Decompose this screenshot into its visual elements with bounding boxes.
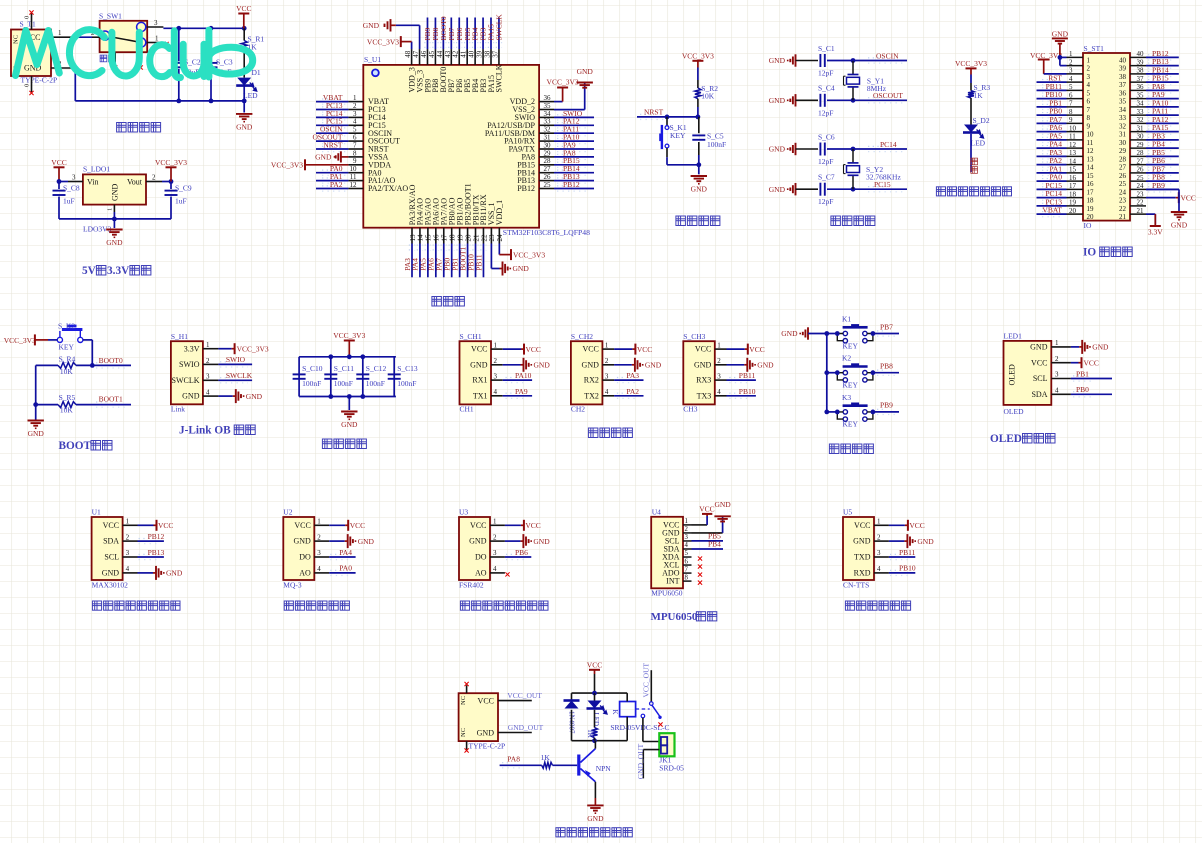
svg-text:K3: K3 xyxy=(842,393,851,402)
wire key to PB9 xyxy=(873,411,899,413)
svg-text:PB9: PB9 xyxy=(880,401,893,410)
wire net PA1 xyxy=(1037,172,1067,174)
pin 33 PA12/USB/DP xyxy=(487,118,554,130)
svg-text:GND: GND xyxy=(917,537,934,546)
svg-text:D1: D1 xyxy=(252,68,261,77)
lead GND to S_C1 xyxy=(796,60,819,62)
svg-text:37: 37 xyxy=(1137,75,1145,83)
pin 44 BOOT0 xyxy=(436,49,448,92)
svg-text:24: 24 xyxy=(1137,182,1145,190)
wire C3 top lead xyxy=(210,28,212,61)
wire net PA9 xyxy=(1146,98,1179,100)
wire C3 bottom lead xyxy=(210,69,212,101)
power flag VCC_3V3 xyxy=(955,59,987,75)
contact circle xyxy=(650,702,654,706)
junction key right xyxy=(871,370,876,375)
svg-text:PB12: PB12 xyxy=(563,180,580,189)
pin 15 PA5/AO xyxy=(424,198,433,244)
pin 21 of ST1 xyxy=(1119,207,1146,221)
svg-text:GND: GND xyxy=(691,185,708,194)
svg-text:U4: U4 xyxy=(652,507,661,516)
pin 13 PA3/RX/AO xyxy=(408,184,417,243)
svg-text:9: 9 xyxy=(353,157,357,165)
pin 4 SDA of OLED xyxy=(1031,387,1070,399)
ground xyxy=(345,534,375,548)
pin 16 PA6/AO xyxy=(432,198,441,244)
section key circuit xyxy=(781,315,899,454)
svg-text:GND: GND xyxy=(769,96,786,105)
wire R2 to node xyxy=(697,107,699,117)
chip orientation mark xyxy=(372,69,379,76)
wire VCC xyxy=(614,348,632,350)
pin 1 VCC of U3 xyxy=(470,518,505,530)
wire net PB3 xyxy=(1146,139,1179,141)
wire net PB0 xyxy=(451,244,453,278)
section IO expansion header xyxy=(1030,30,1196,259)
svg-text:16: 16 xyxy=(433,234,441,242)
ground xyxy=(904,534,934,548)
svg-text:VCC: VCC xyxy=(695,345,711,354)
wire net PB12 xyxy=(554,188,594,190)
pin 18 of ST1 xyxy=(1067,190,1095,204)
lead to R2 xyxy=(697,80,699,88)
svg-text:8: 8 xyxy=(685,574,689,581)
pin 10 of ST1 xyxy=(1067,124,1095,138)
wire 3V3 to pin3 xyxy=(1044,73,1067,75)
pin 27 of ST1 xyxy=(1119,157,1146,171)
pin 31 of ST1 xyxy=(1119,124,1146,138)
svg-text:PC14: PC14 xyxy=(880,140,897,149)
pin 5 XDA of U4 xyxy=(662,550,691,561)
regulator S_LDO1 xyxy=(83,174,146,204)
wire key down xyxy=(666,157,668,165)
svg-text:GND: GND xyxy=(477,728,495,737)
resistor S_R5 xyxy=(58,402,76,408)
svg-text:GND: GND xyxy=(769,56,786,65)
wire net PA3 xyxy=(614,379,643,381)
svg-text:VCC_3V3: VCC_3V3 xyxy=(155,158,187,167)
pin 2 SDA of U1 xyxy=(103,533,137,545)
wire R4 left xyxy=(36,364,58,366)
wire net PA11 xyxy=(1146,114,1179,116)
wire GND to pin1 xyxy=(1060,56,1067,58)
svg-text:S_C5: S_C5 xyxy=(707,132,724,141)
wire net PA6 xyxy=(435,244,437,278)
svg-text:26: 26 xyxy=(1119,172,1127,180)
svg-text:27: 27 xyxy=(544,165,552,173)
svg-text:LED: LED xyxy=(243,91,258,100)
wire net PB5 xyxy=(466,18,468,50)
wire net PB11 xyxy=(889,556,915,558)
ground for S_C4 xyxy=(769,94,796,106)
svg-text:GND: GND xyxy=(106,238,123,247)
wire net PB3 xyxy=(482,18,484,50)
svg-text:SCL: SCL xyxy=(104,553,119,562)
svg-text:25: 25 xyxy=(544,181,552,189)
svg-text:AO: AO xyxy=(299,569,311,578)
caption 薄膜压力检测模块 xyxy=(460,601,548,610)
wire net PA11 xyxy=(554,132,594,134)
svg-text:31: 31 xyxy=(1119,131,1127,139)
ground above ST1 xyxy=(1052,30,1069,58)
svg-text:15: 15 xyxy=(1087,172,1095,180)
svg-text:VCC: VCC xyxy=(236,4,251,13)
wire net VBAT xyxy=(1037,213,1067,215)
pin 39 of ST1 xyxy=(1119,58,1146,72)
wire net PA4 xyxy=(329,556,355,558)
svg-text:S_CH2: S_CH2 xyxy=(571,332,593,341)
crystal Y1 xyxy=(844,61,860,100)
wire net PB7 xyxy=(1146,172,1179,174)
wire net PA12 xyxy=(1146,122,1179,124)
svg-text:16: 16 xyxy=(1087,180,1095,188)
wire net PB8 xyxy=(434,18,436,50)
svg-text:PB10: PB10 xyxy=(739,387,756,396)
svg-text:INT: INT xyxy=(666,577,679,586)
pin 2 of SW1 xyxy=(92,36,100,38)
junction key right xyxy=(871,331,876,336)
pin 0 top of T1 xyxy=(31,14,33,30)
wire stub pin1 xyxy=(160,42,166,44)
wire VCC up xyxy=(706,516,708,525)
pin 23 of ST1 xyxy=(1119,190,1146,204)
svg-text:KEY: KEY xyxy=(843,420,859,429)
pin 19 PB1/AO xyxy=(455,197,464,243)
svg-text:22: 22 xyxy=(480,234,488,242)
lead coil bottom xyxy=(626,717,628,741)
svg-text:SWCLK: SWCLK xyxy=(226,371,253,380)
svg-text:TYPE-C-2P: TYPE-C-2P xyxy=(21,75,58,84)
pin 11 of ST1 xyxy=(1067,133,1094,147)
svg-text:12pF: 12pF xyxy=(818,197,833,206)
pin 9 of ST1 xyxy=(1067,116,1091,130)
pin 3 of SW1 xyxy=(147,26,164,28)
logo MCUclub xyxy=(16,30,253,78)
wire to VCC xyxy=(329,524,345,526)
wire emitter down xyxy=(594,782,596,798)
svg-text:9: 9 xyxy=(1087,122,1091,130)
key S_K1 xyxy=(659,125,669,149)
caption 串口电路 xyxy=(588,428,632,438)
connector S_ST1 xyxy=(1083,53,1130,221)
svg-text:VCC_3V3: VCC_3V3 xyxy=(271,160,303,169)
wire VCC xyxy=(503,348,521,350)
caption 复位电路 xyxy=(676,216,720,226)
resistor 1K relay xyxy=(592,728,598,738)
wire VSS_3 left xyxy=(396,24,420,26)
wire net PC14 xyxy=(1037,197,1067,199)
junction top rail xyxy=(360,354,365,359)
svg-text:32: 32 xyxy=(544,126,552,134)
power flag VCC xyxy=(905,520,925,531)
pin 6 OSCOUT xyxy=(348,134,400,146)
svg-text:OLED: OLED xyxy=(1004,407,1025,416)
svg-text:44: 44 xyxy=(436,50,444,58)
svg-text:VCC: VCC xyxy=(103,521,119,530)
ground for S_C1 xyxy=(769,54,796,66)
pin 3 RX1 xyxy=(472,372,502,384)
svg-text:CN-TTS: CN-TTS xyxy=(843,580,869,589)
svg-text:PB4: PB4 xyxy=(708,540,721,549)
wire key to C5 bottom xyxy=(667,164,699,166)
wire S_C13 branch xyxy=(393,357,395,397)
svg-text:GND: GND xyxy=(246,392,263,401)
pin 2 GND xyxy=(470,357,503,369)
svg-text:19: 19 xyxy=(456,234,464,242)
wire H1 GND xyxy=(218,395,232,397)
section main chip STM32 xyxy=(271,14,594,306)
wire net PB15 xyxy=(554,164,594,166)
wire net PB13 xyxy=(1146,65,1179,67)
svg-text:39: 39 xyxy=(1137,58,1145,66)
svg-text:33: 33 xyxy=(1119,114,1127,122)
svg-text:3.3V: 3.3V xyxy=(107,265,130,277)
svg-text:S_SW1: S_SW1 xyxy=(99,12,122,21)
svg-text:SCL: SCL xyxy=(1033,374,1048,383)
svg-text:100nF: 100nF xyxy=(334,379,353,388)
svg-text:BOOT: BOOT xyxy=(59,440,92,452)
caption 电源电路 xyxy=(117,123,161,133)
svg-text:3: 3 xyxy=(494,372,498,380)
svg-text:18: 18 xyxy=(1069,190,1077,198)
lead to key xyxy=(666,117,668,126)
wire net PA7 xyxy=(1037,122,1067,124)
svg-text:1: 1 xyxy=(685,518,688,525)
svg-text:24: 24 xyxy=(1119,188,1127,196)
junction R5 left xyxy=(33,402,38,407)
wire net PC15 xyxy=(1037,188,1067,190)
wire Vout to VCC_3V3 xyxy=(162,181,171,183)
IC S_U1 STM32F103C8T6 xyxy=(363,65,539,228)
pin 25 of ST1 xyxy=(1119,174,1146,188)
svg-text:3.3V: 3.3V xyxy=(184,344,200,353)
svg-text:6: 6 xyxy=(1087,98,1091,106)
svg-text:27: 27 xyxy=(1119,164,1127,172)
pin 3 TXD of U5 xyxy=(854,549,889,561)
pin 2 VCC of OLED xyxy=(1031,355,1071,367)
pin 3 Vin xyxy=(68,181,83,183)
T2 top pin xyxy=(466,685,468,693)
junction C9 top xyxy=(169,179,174,184)
pin 45 PB8 xyxy=(428,49,440,92)
svg-text:7: 7 xyxy=(353,141,357,149)
svg-text:GND: GND xyxy=(469,537,487,546)
svg-text:21: 21 xyxy=(1137,207,1145,215)
junction key left xyxy=(835,331,840,336)
wire net PA2 xyxy=(316,188,348,190)
svg-text:33: 33 xyxy=(544,118,552,126)
svg-text:2: 2 xyxy=(717,357,721,365)
svg-text:3: 3 xyxy=(206,373,210,381)
wire to GND xyxy=(505,540,521,542)
wire VCC xyxy=(727,348,745,350)
caption 酒精检测模块 xyxy=(284,601,349,610)
svg-text:NC: NC xyxy=(460,696,467,705)
svg-text:17: 17 xyxy=(1087,188,1095,196)
ground xyxy=(520,534,550,548)
svg-text:GND: GND xyxy=(1171,221,1188,230)
svg-text:MQ-3: MQ-3 xyxy=(283,580,302,589)
pin 3 DO of U3 xyxy=(475,549,505,561)
svg-text:CH1: CH1 xyxy=(460,405,474,414)
wire net PC13 xyxy=(316,109,348,111)
wire filter top rail xyxy=(299,356,396,358)
wire net OSCIN xyxy=(827,60,907,62)
wire net PB10 xyxy=(889,572,915,574)
ground OLED xyxy=(1079,340,1109,354)
svg-text:29: 29 xyxy=(1119,147,1127,155)
pin 26 PB13 xyxy=(517,173,554,185)
pin 28 PB15 xyxy=(517,157,554,169)
caption 心率血氧检测模块 xyxy=(92,601,180,610)
svg-text:37: 37 xyxy=(1119,81,1127,89)
wire net PA2 xyxy=(1037,164,1067,166)
svg-text:VCC: VCC xyxy=(350,521,365,530)
wire net PC14 xyxy=(827,148,907,150)
svg-text:SWCLK: SWCLK xyxy=(172,376,200,385)
lead R2 out xyxy=(697,99,699,107)
svg-text:S_C10: S_C10 xyxy=(302,364,323,373)
svg-text:4: 4 xyxy=(605,388,609,396)
lead GND to S_C6 xyxy=(796,148,819,150)
caption J-Link OB接口 xyxy=(179,425,255,437)
wire net PA0 xyxy=(1037,180,1067,182)
pin GND_OUT xyxy=(498,732,532,734)
svg-text:4: 4 xyxy=(493,565,497,573)
ground at VSS_1 xyxy=(500,262,530,276)
pin 21 PB10/TX xyxy=(471,194,480,243)
resistor S_R3 xyxy=(968,91,974,98)
svg-text:NRST: NRST xyxy=(323,140,343,149)
svg-text:NPN: NPN xyxy=(596,764,612,773)
svg-text:9: 9 xyxy=(1069,116,1073,124)
pin 14 of ST1 xyxy=(1067,157,1095,171)
svg-text:GND: GND xyxy=(769,145,786,154)
wire GND to key bus xyxy=(808,333,827,335)
pin 3 RX3 xyxy=(696,372,726,384)
svg-text:S_T1: S_T1 xyxy=(20,20,37,29)
svg-text:23: 23 xyxy=(488,234,496,242)
power flag VCC xyxy=(745,344,765,355)
pin 1 VCC of U1 xyxy=(103,518,138,530)
SW1 bottom pin b xyxy=(140,52,142,66)
junction top rail VCC xyxy=(242,26,247,31)
power flag VCC xyxy=(521,520,541,531)
lead to relay LED xyxy=(594,693,596,700)
wire net PA3 xyxy=(1037,155,1067,157)
pin 2 GND of U4 xyxy=(662,526,691,537)
contact end dot xyxy=(658,716,661,719)
svg-text:SRD-05: SRD-05 xyxy=(659,764,684,773)
no-ERC contact NC xyxy=(658,722,662,726)
wire PB4 xyxy=(692,548,724,550)
svg-text:SDA: SDA xyxy=(103,537,119,546)
svg-text:GND: GND xyxy=(110,183,119,201)
wire to JK1 pin1 xyxy=(643,741,659,743)
caption 程序运行指示灯 xyxy=(936,187,1011,196)
pin 0 bottom of T1 xyxy=(31,76,33,92)
section program run LED xyxy=(936,59,1011,196)
svg-text:3: 3 xyxy=(717,372,721,380)
svg-text:VCC_3V3: VCC_3V3 xyxy=(513,250,545,259)
power flag VCC_3V3 xyxy=(333,331,365,357)
pin 31 PA10/RX xyxy=(504,134,554,146)
wire to R3 xyxy=(970,75,972,84)
wire to GND xyxy=(698,165,700,175)
svg-text:30: 30 xyxy=(544,141,552,149)
svg-text:S_D2: S_D2 xyxy=(973,116,990,125)
svg-text:GND: GND xyxy=(1030,343,1048,352)
wire to GND xyxy=(329,540,345,542)
power flag VCC_3V3 xyxy=(4,334,48,345)
svg-text:S_C9: S_C9 xyxy=(175,184,192,193)
svg-text:RX3: RX3 xyxy=(696,376,711,385)
svg-text:RXD: RXD xyxy=(854,569,871,578)
no-ERC xyxy=(698,581,702,585)
pin 2 GND of U5 xyxy=(853,533,889,545)
svg-text:10K: 10K xyxy=(60,406,74,415)
power flag VCC xyxy=(154,520,174,531)
svg-text:K: K xyxy=(611,710,619,715)
svg-text:VCC: VCC xyxy=(1181,193,1196,202)
switch lever xyxy=(110,37,137,42)
svg-text:2: 2 xyxy=(877,533,881,541)
wire to GND xyxy=(889,540,905,542)
wire net SWCLK xyxy=(498,18,500,50)
pin 1 3.3V of H1 xyxy=(184,341,219,353)
pin 1 VBAT xyxy=(348,94,389,106)
svg-text:MPU6050: MPU6050 xyxy=(651,611,698,623)
wire VDD_1 down xyxy=(498,244,500,255)
svg-text:13: 13 xyxy=(1069,149,1077,157)
svg-text:40: 40 xyxy=(468,50,476,58)
wire net PA8 xyxy=(554,156,594,158)
caption 语音播报模块 xyxy=(845,601,910,610)
wire net PA4 xyxy=(419,244,421,278)
svg-text:SWCLK: SWCLK xyxy=(495,64,504,92)
no-ERC SW1 bottom a xyxy=(113,65,117,69)
svg-text:17: 17 xyxy=(1069,182,1077,190)
svg-text:MPU6050: MPU6050 xyxy=(651,588,683,597)
svg-text:18: 18 xyxy=(1087,197,1095,205)
wire net PB12 xyxy=(1146,56,1179,58)
svg-text:PA10: PA10 xyxy=(515,371,532,380)
connector S_CH3 xyxy=(683,341,715,404)
wire PB0 xyxy=(1071,393,1112,395)
wire VSS_2 up xyxy=(584,83,586,110)
pin 3 SCL of U4 xyxy=(665,534,692,545)
svg-text:PB6: PB6 xyxy=(515,548,528,557)
svg-text:12pF: 12pF xyxy=(818,157,833,166)
svg-text:GND: GND xyxy=(236,122,253,131)
power flag VCC_3V3 at VDD_3 xyxy=(367,36,412,47)
caption 主芯片 xyxy=(432,297,465,307)
module U5 xyxy=(843,517,874,580)
wire net PB1 xyxy=(1037,106,1067,108)
svg-text:22: 22 xyxy=(1137,199,1145,207)
svg-text:6: 6 xyxy=(353,134,357,142)
svg-text:PB0: PB0 xyxy=(1076,385,1089,394)
SW1 bottom pin a xyxy=(114,52,116,66)
svg-text:GND_OUT: GND_OUT xyxy=(508,723,544,732)
wire K2 right xyxy=(83,339,92,341)
ground at VSSA pin 8 xyxy=(315,151,348,162)
svg-text:3: 3 xyxy=(1087,73,1091,81)
pin 41 PB5 xyxy=(460,49,472,92)
svg-text:TYPE-C-2P: TYPE-C-2P xyxy=(469,741,506,750)
junction bottom rail xyxy=(592,738,597,743)
svg-text:SDA: SDA xyxy=(1031,390,1047,399)
